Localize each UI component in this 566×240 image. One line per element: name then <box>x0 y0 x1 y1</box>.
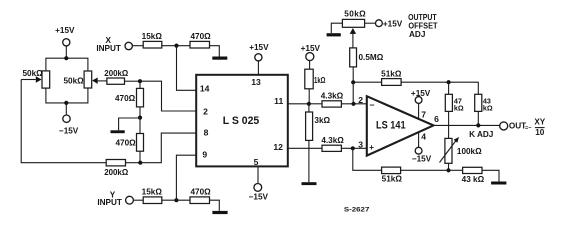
ground (50k pot) <box>327 33 341 36</box>
wire pin 13 to +15V <box>257 61 259 75</box>
svg-text:K ADJ: K ADJ <box>469 130 493 139</box>
node junction top rail <box>64 56 68 60</box>
svg-text:470Ω: 470Ω <box>115 94 136 103</box>
node junction pin 3 <box>351 146 355 150</box>
svg-text:470Ω: 470Ω <box>115 139 136 148</box>
svg-text:+15V: +15V <box>411 89 431 98</box>
wire 51k to top rail and down to 43k <box>401 82 478 94</box>
svg-text:INPUT: INPUT <box>96 44 121 53</box>
resistor 0.5M <box>350 48 384 82</box>
svg-text:6: 6 <box>434 114 439 124</box>
svg-text:15kΩ: 15kΩ <box>142 187 163 196</box>
node X INPUT terminal <box>96 36 132 53</box>
svg-text:11: 11 <box>274 96 283 106</box>
svg-text:470Ω: 470Ω <box>190 32 211 41</box>
op-amp U1 LS025 box <box>196 75 288 167</box>
svg-text:4: 4 <box>421 132 426 142</box>
wire Y junction to pin 9 <box>176 155 196 200</box>
svg-text:INPUT: INPUT <box>97 198 122 207</box>
node junction B <box>351 102 355 106</box>
node Y INPUT terminal <box>97 191 133 208</box>
wire to -15V <box>65 103 67 115</box>
svg-text:50kΩ: 50kΩ <box>344 9 366 18</box>
svg-text:13: 13 <box>251 77 261 87</box>
wire X junction to pin 14 <box>177 46 197 91</box>
resistor 15k (Y) <box>142 187 163 203</box>
node -15V terminal (pin 5) <box>249 184 269 202</box>
wire pot left to ground <box>331 23 342 33</box>
node chain top junction <box>138 79 142 83</box>
svg-text:L S 025: L S 025 <box>223 115 260 127</box>
wire pin 5 to -15V <box>257 166 259 183</box>
svg-text:0.5MΩ: 0.5MΩ <box>359 53 384 62</box>
svg-text:50kΩ: 50kΩ <box>63 76 84 85</box>
svg-text:15kΩ: 15kΩ <box>142 32 163 41</box>
node +15V terminal (left pot network) <box>55 26 75 46</box>
svg-text:4.3kΩ: 4.3kΩ <box>321 92 344 101</box>
wire chain top junction to pin 2 <box>140 81 196 111</box>
svg-text:5: 5 <box>254 157 259 167</box>
svg-text:9: 9 <box>202 149 207 159</box>
wire left pot wiper bus down and right <box>21 80 106 163</box>
node junction A (pin 11) <box>307 102 311 106</box>
wire top rail of pot bridge <box>46 58 88 71</box>
svg-text:50kΩ: 50kΩ <box>22 69 43 78</box>
node X junction <box>174 44 178 48</box>
resistor 3k <box>306 104 331 182</box>
resistor 4.3k (lower) <box>321 136 344 151</box>
wire pin 11 to junction A <box>288 103 309 105</box>
wire pin3 junction down to 51k lower <box>353 148 382 170</box>
wire pin 12 to 4.3k lower <box>288 147 322 149</box>
svg-text:100kΩ: 100kΩ <box>457 147 482 156</box>
svg-text:3kΩ: 3kΩ <box>314 116 330 125</box>
svg-text:8: 8 <box>204 128 209 138</box>
svg-text:XY: XY <box>534 118 545 127</box>
node junction 0.5M / 51k <box>351 80 355 84</box>
resistor 51k (lower feedback) <box>382 167 449 184</box>
svg-text:200kΩ: 200kΩ <box>104 168 128 177</box>
svg-text:OUT: OUT <box>509 122 526 131</box>
node chain middle junction <box>138 116 142 120</box>
node junction top rail 47k <box>447 80 451 84</box>
svg-text:−15V: −15V <box>249 192 269 201</box>
wire bottom rail of pot bridge <box>46 88 88 103</box>
svg-text:12: 12 <box>273 142 283 152</box>
op-amp U2 LS141 triangle <box>367 96 434 155</box>
resistor 43k (upper) <box>475 94 493 125</box>
svg-text:51kΩ: 51kΩ <box>381 70 402 79</box>
wire junction down to pin 2 wire <box>352 82 354 104</box>
wire middle junction to ground <box>119 118 140 130</box>
node OUT terminal <box>500 122 508 130</box>
svg-text:+15V: +15V <box>55 26 75 35</box>
wire 15k to 470 (Y) <box>162 199 190 201</box>
svg-text:ADJ: ADJ <box>409 30 425 39</box>
svg-text:4.3kΩ: 4.3kΩ <box>321 136 344 145</box>
svg-text:7: 7 <box>421 110 426 120</box>
potentiometer 100k K adj <box>440 137 483 170</box>
resistor 470 (Y) <box>190 187 211 203</box>
ground (3k) <box>302 182 317 185</box>
resistor 470 (X) <box>190 32 211 48</box>
potentiometer R2 50k (right) <box>63 71 106 88</box>
svg-text:470Ω: 470Ω <box>190 187 211 196</box>
text OUT formula <box>509 118 546 137</box>
wire +15V to top rail <box>65 46 67 58</box>
ground (Y input) <box>212 211 227 214</box>
resistor 15k (X) <box>142 32 163 48</box>
wire 200k to chain bottom node <box>126 162 141 164</box>
resistor 200k (upper, X path) <box>104 69 128 84</box>
svg-text:kΩ: kΩ <box>483 104 493 113</box>
node -15V terminal (left) <box>59 115 79 135</box>
svg-text:+: + <box>369 143 374 152</box>
pin 7 +15V <box>411 89 431 120</box>
node Y junction <box>174 198 178 202</box>
potentiometer 50k output offset <box>342 9 366 48</box>
node +15V terminal (1k) <box>301 44 321 61</box>
pin 6 output wire <box>434 124 500 126</box>
svg-text:S-2627: S-2627 <box>344 206 370 213</box>
resistor 470 (chain lower) <box>115 118 143 163</box>
svg-text:1kΩ: 1kΩ <box>314 76 326 85</box>
resistor 51k (upper) <box>353 70 402 86</box>
pin 4 -15V <box>412 132 432 164</box>
svg-text:+15V: +15V <box>383 19 403 28</box>
resistor 47k <box>445 82 464 138</box>
svg-text:51kΩ: 51kΩ <box>382 175 403 184</box>
svg-text:2: 2 <box>203 106 208 116</box>
node junction pot bottom <box>446 168 450 172</box>
ground (X input) <box>212 57 227 60</box>
resistor 470 (chain upper) <box>115 81 144 117</box>
svg-text:+15V: +15V <box>301 44 321 53</box>
wire 15k to 470 <box>162 45 190 47</box>
svg-text:10: 10 <box>535 128 545 137</box>
svg-text:–: – <box>370 99 375 109</box>
node junction bottom rail <box>64 101 68 105</box>
svg-text:2: 2 <box>358 95 363 105</box>
resistor 4.3k (upper) <box>309 92 344 108</box>
node chain bottom junction <box>138 161 142 165</box>
svg-text:=−: =− <box>525 126 532 132</box>
potentiometer R1 50k (left) <box>21 69 50 88</box>
ground (43k) <box>491 182 506 185</box>
resistor 43k (lower) <box>449 167 485 184</box>
node +15V terminal (pin 13) <box>249 43 269 61</box>
node junction 43k / output <box>476 123 480 127</box>
svg-text:kΩ: kΩ <box>454 104 464 113</box>
svg-text:−15V: −15V <box>412 155 432 164</box>
wire Y input to 15k <box>133 199 143 201</box>
svg-text:+15V: +15V <box>249 43 269 52</box>
svg-text:200kΩ: 200kΩ <box>104 69 128 78</box>
resistor 1k <box>305 61 326 104</box>
svg-text:3: 3 <box>358 139 363 149</box>
wire pot right to +15V <box>365 22 376 24</box>
wire chain bottom junction to pin 8 <box>140 133 196 163</box>
wire 43k to ground <box>482 170 499 181</box>
wire 4.3k to op-amp pin 2 <box>341 103 366 105</box>
svg-text:43 kΩ: 43 kΩ <box>462 175 485 184</box>
text OUTPUT OFFSET ADJ <box>408 13 437 39</box>
svg-text:−15V: −15V <box>59 126 79 135</box>
wire X input to 15k <box>132 45 143 47</box>
ground (chain middle) <box>111 130 125 133</box>
svg-text:14: 14 <box>200 83 210 93</box>
node +15V terminal (50k pot) <box>376 19 403 28</box>
svg-text:LS 141: LS 141 <box>376 120 406 132</box>
resistor 200k (lower, Y path) <box>104 160 128 177</box>
wire 4.3k to op-amp pin 3 <box>341 147 366 149</box>
wire 470 to ground (Y) <box>210 200 220 211</box>
wire 470 to ground <box>210 46 220 57</box>
wire 200k to chain top node <box>125 80 141 82</box>
